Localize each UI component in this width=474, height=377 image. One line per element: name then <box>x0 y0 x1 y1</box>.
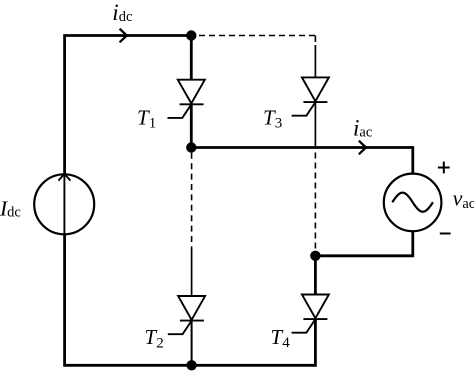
node B (mid, junction of T1 and i_ac rail) <box>186 142 196 152</box>
arrow i_ac on mid rail <box>359 141 366 155</box>
arrow i_dc on top rail <box>120 29 127 43</box>
minus sign <box>440 233 451 235</box>
ac source v_ac <box>384 174 442 232</box>
thyristor T3 <box>292 45 329 148</box>
node C (junction of v_ac return and T4, dashed from T3) <box>310 251 320 261</box>
wire dashed from mid rail down to node C (T3 lower leg) <box>314 153 316 251</box>
wire dashed corner stub above T3 <box>314 36 316 43</box>
thyristor T2 <box>168 249 205 366</box>
wire dashed from node A to T3 top corner <box>199 35 315 37</box>
wire mid rail to v_ac <box>191 148 412 174</box>
wire left rail down and bottom rail <box>65 234 316 365</box>
thyristor T4 <box>292 256 329 333</box>
current source I_dc <box>34 174 94 234</box>
thyristor T1 <box>168 36 205 148</box>
wire dashed from node B down to T2 <box>191 153 193 249</box>
plus sign <box>438 162 450 174</box>
node A (top, junction of i_dc rail, T1, dashed to T3) <box>186 30 196 40</box>
wire from v_ac bottom to node C <box>315 231 412 256</box>
wire top rail from left corner to node A <box>65 36 192 175</box>
node D (bottom, junction of T2 and bottom rail) <box>186 360 196 370</box>
